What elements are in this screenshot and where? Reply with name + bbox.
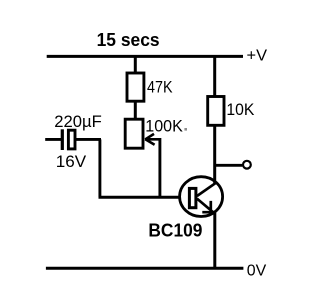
potentiometer VR1 100K body — [125, 119, 143, 148]
svg-text:47K: 47K — [147, 77, 173, 96]
svg-text:16V: 16V — [56, 152, 87, 171]
svg-text:220µF: 220µF — [54, 112, 102, 131]
svg-text:15 secs: 15 secs — [97, 30, 160, 50]
output terminal circle — [243, 161, 251, 169]
wire C1 left lead — [45, 138, 61, 141]
label period after 100K — [184, 128, 187, 131]
potentiometer VR1 wiper arrow — [145, 134, 160, 145]
transistor Q1 emitter stroke — [197, 199, 214, 213]
resistor R1 47K — [127, 73, 144, 101]
svg-text:100K: 100K — [145, 116, 183, 135]
wire R1 to VR1 — [134, 100, 137, 121]
svg-text:BC109: BC109 — [148, 221, 202, 241]
wire output tap — [215, 164, 243, 167]
wire top rail to R1 — [134, 56, 137, 74]
svg-text:0V: 0V — [247, 263, 267, 280]
wire 0V bottom rail — [46, 267, 244, 270]
wire C1 down to base node — [98, 139, 101, 197]
capacitor C1 plate positive — [68, 130, 75, 149]
transistor Q1 body circle — [180, 177, 223, 217]
transistor Q1 collector stroke — [197, 183, 215, 196]
wire +V top rail — [47, 55, 243, 58]
svg-text:+V: +V — [247, 47, 268, 64]
capacitor C1 plate negative — [61, 129, 64, 150]
resistor R2 10K — [208, 97, 224, 126]
svg-text:10K: 10K — [226, 100, 255, 119]
wire base node to Q1 base — [99, 196, 190, 199]
wire top rail to R2 — [213, 56, 216, 98]
wire C1 right lead — [76, 138, 101, 141]
wire R2 to Q1 collector — [213, 125, 216, 184]
wire Q1 emitter to 0V rail — [213, 212, 216, 268]
transistor Q1 emitter arrow barbs — [202, 201, 214, 213]
transistor Q1 base bar — [189, 188, 196, 207]
wire wiper to base node — [158, 138, 161, 197]
